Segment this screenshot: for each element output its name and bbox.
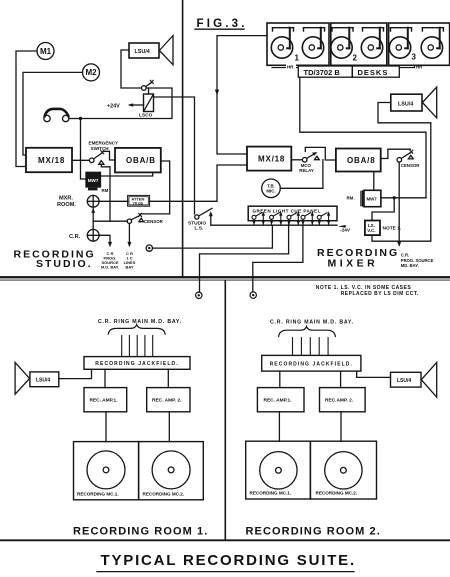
svg-text:REC. AMP. 2.: REC. AMP. 2. [152, 398, 181, 404]
turntables [271, 28, 443, 58]
svg-text:MIXER: MIXER [328, 258, 379, 270]
svg-text:MXR.: MXR. [59, 196, 73, 202]
wire censor to 1C lines arrow [128, 223, 130, 245]
svg-text:PROG. SOURCE: PROG. SOURCE [401, 258, 434, 263]
amplifier OBA/B studio [115, 148, 161, 173]
wire MCO contact to TB mic [280, 160, 323, 189]
svg-text:ROOM.: ROOM. [57, 202, 76, 208]
svg-text:RECORDING MC.1.: RECORDING MC.1. [250, 491, 292, 496]
amplifier REC AMP2 room1 [147, 388, 190, 412]
microphone M2 [83, 64, 100, 81]
svg-text:OBA/B: OBA/B [126, 156, 156, 165]
wire MX/18 to MCO relay [291, 159, 302, 161]
wire desks to mixer MX/18 [217, 36, 267, 154]
svg-text:REPLACED BY LS DIM CCT.: REPLACED BY LS DIM CCT. [341, 291, 419, 297]
wire junction down to MW7 [81, 119, 87, 180]
bottom rule above title [0, 539, 450, 541]
svg-text:MW7: MW7 [88, 178, 99, 183]
microphone M1 [37, 43, 54, 60]
amplifier REC AMP1 room1 [84, 388, 127, 412]
svg-text:-24V: -24V [340, 228, 351, 234]
wire C.R. to prog source arrow [99, 235, 110, 245]
attenuator ATTEN 70db [128, 195, 150, 206]
label box DESKS [352, 66, 399, 77]
loudspeaker LSU/4 room2 [391, 372, 422, 387]
wire censor to CR prog source arrow [398, 162, 400, 245]
svg-text:MX/18: MX/18 [258, 155, 285, 164]
wire OBA/8 down to MW7 mixer [373, 172, 375, 191]
relay LSCO [148, 88, 150, 94]
svg-text:GREEN LIGHT CUE PANEL: GREEN LIGHT CUE PANEL [253, 209, 321, 214]
svg-text:V.C.: V.C. [367, 228, 375, 233]
svg-text:2: 2 [353, 54, 358, 63]
wire terminal to green light panel [153, 225, 273, 248]
wire junction to LS switch leg [81, 89, 173, 119]
wire amp1 to recorder1 room2 [278, 412, 280, 441]
wire MXR to ATTEN [99, 200, 128, 202]
switch censor mixer [410, 150, 413, 153]
brace CR ring main room2 [279, 326, 336, 336]
recorder MC2 room1 [139, 442, 204, 500]
wire M1 to MX/18 [16, 51, 37, 167]
svg-text:TD/3702 B: TD/3702 B [304, 68, 341, 77]
recorder MC1 room2 [246, 441, 311, 499]
wire jackfield to rec amp1 room2 [279, 371, 281, 388]
wire jackfield to rec amp2 room1 [167, 369, 169, 387]
svg-text:LSU/4: LSU/4 [398, 101, 413, 107]
svg-text:REC. AMP.1.: REC. AMP.1. [264, 398, 292, 404]
FIG.3 underline [195, 28, 244, 30]
brace CR ring main room1 [108, 325, 165, 334]
microphone T.B. MIC [262, 179, 281, 198]
label HR left [286, 64, 296, 70]
hybrid MW7 studio [86, 172, 101, 187]
svg-text:MD. BAY.: MD. BAY. [401, 263, 419, 268]
amplifier MX/18 mixer [247, 147, 291, 171]
svg-text:EMERGENCY: EMERGENCY [89, 141, 119, 146]
wire green light to room1 terminal [200, 219, 289, 292]
bracket arm right with HR [399, 65, 414, 67]
svg-text:RECORDING MC.1.: RECORDING MC.1. [77, 492, 119, 497]
svg-text:HR: HR [287, 65, 294, 70]
desk box 1 [267, 23, 329, 65]
svg-text:C.R. RING MAIN M.D. BAY.: C.R. RING MAIN M.D. BAY. [270, 320, 354, 326]
svg-text:STUDIO: STUDIO [188, 220, 206, 226]
svg-text:MIC.: MIC. [266, 188, 275, 193]
svg-text:RECORDING ROOM 1.: RECORDING ROOM 1. [73, 526, 208, 538]
svg-text:C.R.: C.R. [69, 234, 81, 240]
relay switch MCO [302, 158, 307, 163]
svg-text:TYPICAL RECORDING SUITE.: TYPICAL RECORDING SUITE. [101, 552, 356, 569]
svg-text:RECORDING JACKFIELD.: RECORDING JACKFIELD. [270, 362, 353, 368]
wire censor to OBA/B [141, 161, 170, 214]
turntable at x=341.5 [331, 28, 353, 58]
wire amp2 to recorder2 room1 [168, 412, 170, 442]
svg-text:LSU/4: LSU/4 [135, 49, 150, 55]
node junction headphones [79, 117, 82, 120]
switch LS cut [142, 86, 147, 91]
wire LSCO to studio LS switch [154, 97, 195, 214]
svg-text:SWITCH: SWITCH [91, 146, 110, 151]
svg-text:RECORDING MC.2.: RECORDING MC.2. [316, 491, 358, 496]
wire jackfield to LSU/4 room2 [357, 371, 391, 377]
hybrid MW7 mixer [364, 190, 381, 206]
switch studio LS [195, 215, 199, 219]
wire headphones to junction [69, 118, 81, 120]
terminal room1 [196, 292, 202, 298]
svg-text:NOTE 1.: NOTE 1. [383, 226, 402, 232]
wire OBA/8 to censor mixer [381, 149, 411, 158]
amplifier MX/18 studio [26, 148, 72, 172]
green light switch 3 [287, 211, 300, 225]
svg-text:STUDIO.: STUDIO. [36, 258, 93, 270]
svg-text:FIG.3.: FIG.3. [197, 18, 248, 30]
loudspeaker LSU/4 room1 [30, 372, 59, 387]
wire jackfield to rec amp1 room1 [104, 369, 106, 387]
turntable at x=400 [389, 28, 411, 58]
wire green light to room2 terminal [253, 219, 303, 291]
panel box [248, 206, 337, 221]
wire M2 to MX/18 [23, 72, 83, 155]
wires ring main to jackfield room1 [122, 336, 153, 357]
svg-text:MX/18: MX/18 [38, 156, 65, 165]
label box TD/3702 B [298, 66, 352, 77]
svg-text:RM.: RM. [347, 195, 355, 200]
wire LS VC to speaker loop [372, 103, 431, 242]
green light switch 4 [301, 211, 314, 225]
svg-text:3: 3 [412, 53, 417, 62]
svg-text:RECORDING MC.2.: RECORDING MC.2. [143, 492, 185, 497]
recorder MC1 room1 [74, 442, 139, 500]
wire MX/18 to emergency switch [72, 159, 89, 161]
amplifier OBA/8 mixer [336, 149, 381, 172]
green light switch 5 [317, 211, 330, 225]
amplifier REC AMP2 room2 [320, 388, 366, 412]
svg-text:REC.AMP. 2.: REC.AMP. 2. [325, 398, 353, 404]
wire amp2 to recorder2 room2 [340, 412, 342, 441]
jackfield room1 [84, 357, 190, 370]
svg-text:RECORDING ROOM 2.: RECORDING ROOM 2. [246, 526, 381, 538]
svg-text:CENSOR: CENSOR [144, 219, 164, 224]
svg-text:C.R.: C.R. [401, 253, 409, 258]
emergency switch [89, 158, 94, 163]
terminal room2 [250, 292, 256, 298]
loudspeaker LSU/4 studio [129, 43, 159, 58]
node C.R. jack [87, 229, 99, 241]
wire MW7 to OBA/B underside [101, 172, 153, 176]
svg-text:REC. AMP.1.: REC. AMP.1. [90, 398, 118, 404]
svg-text:DESKS: DESKS [358, 68, 389, 77]
desk box 3 [389, 23, 450, 65]
terminal green light studio [146, 245, 152, 251]
wire to censor switch [93, 220, 127, 222]
svg-text:HR: HR [416, 65, 423, 70]
svg-text:M1: M1 [40, 47, 52, 56]
svg-text:M2: M2 [85, 68, 97, 77]
emergency switch contact triangle [99, 161, 104, 165]
jackfield room2 [262, 355, 361, 371]
wire emergency contact down to atten line [101, 164, 110, 221]
wire LSU/4 to LS switch [121, 50, 141, 88]
svg-text:LSU/4: LSU/4 [397, 378, 411, 384]
bus -24V [211, 224, 337, 226]
svg-text:C.R. RING MAIN M.D. BAY.: C.R. RING MAIN M.D. BAY. [98, 319, 182, 325]
wire bracket down to right-side bus [300, 77, 426, 198]
wire amp1 to recorder1 room1 [105, 412, 107, 442]
svg-text:RECORDING JACKFIELD.: RECORDING JACKFIELD. [95, 361, 178, 367]
desk box 2 [331, 23, 387, 65]
turntable at x=313 [302, 28, 324, 58]
title underline [97, 571, 354, 573]
wire ATTEN to mixer MX/18 [150, 165, 247, 201]
svg-text:70 db: 70 db [133, 200, 144, 205]
headphones [44, 115, 50, 121]
svg-text:CENSOR: CENSOR [401, 163, 421, 168]
divider studio/mixer [182, 0, 184, 277]
green light switch 1 [252, 211, 265, 225]
wire MXR down to C.R. with up arrow [92, 207, 94, 229]
wire MCO to OBA/8 [305, 147, 336, 160]
node MXR ROOM jack [87, 195, 99, 207]
svg-text:RELAY: RELAY [299, 168, 314, 173]
svg-text:BAY: BAY [125, 264, 133, 269]
svg-text:RM: RM [102, 188, 109, 193]
turntable at x=282 [271, 28, 293, 58]
recorder MC2 room2 [310, 441, 376, 499]
svg-text:M.D. BAY.: M.D. BAY. [101, 264, 119, 269]
svg-text:MW7: MW7 [367, 196, 378, 201]
wires ring main to jackfield room2 [293, 338, 329, 356]
svg-text:OBA/8: OBA/8 [347, 156, 375, 165]
svg-text:NOTE 1. LS. V.C. IN SOME CAS: NOTE 1. LS. V.C. IN SOME CASES [316, 285, 412, 291]
switch censor studio [127, 219, 131, 223]
wire junction to LS VC [372, 198, 394, 221]
wire +24V arrow [130, 104, 144, 106]
svg-text:+24V: +24V [107, 104, 120, 110]
turntable at x=372 [361, 28, 383, 58]
svg-text:1: 1 [295, 54, 300, 63]
wire LSU/4 room1 to jackfield [59, 369, 92, 378]
green light switch 2 [270, 211, 283, 225]
volume control LS VC [365, 221, 380, 236]
svg-text:LSU/4: LSU/4 [36, 378, 50, 384]
svg-text:L.S.: L.S. [195, 226, 204, 232]
divider horizontal double line [0, 276, 450, 278]
amplifier REC AMP1 room2 [257, 388, 304, 412]
wire jackfield to rec amp2 room2 [340, 371, 342, 388]
node junction [393, 196, 396, 199]
wire MW7 right to bus junction [381, 197, 426, 199]
divider room1/room2 [224, 281, 226, 540]
bracket arm left with HR [272, 67, 298, 69]
svg-text:LSCO: LSCO [139, 113, 153, 119]
turntable at x=431.9 [421, 28, 443, 58]
loudspeaker LSU/4 mixer [391, 94, 422, 111]
